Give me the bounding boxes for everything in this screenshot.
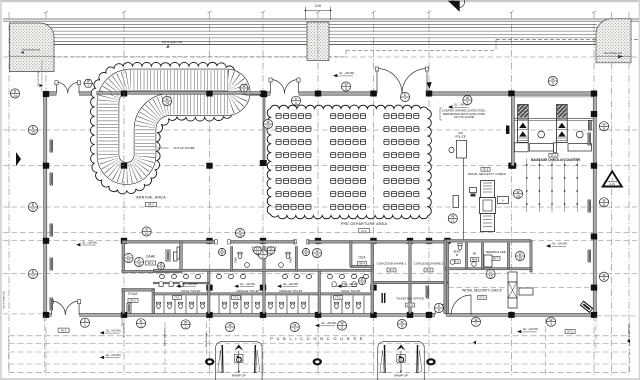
top exterior wall bbox=[43, 92, 57, 95]
svg-text:7: 7 bbox=[87, 84, 89, 88]
EL markers bbox=[333, 71, 355, 77]
svg-text:5: 5 bbox=[345, 87, 347, 91]
grid overlay in cloud bbox=[318, 109, 374, 216]
svg-text:ARRIVAL AREA: ARRIVAL AREA bbox=[136, 196, 166, 200]
PWD fixtures bbox=[238, 252, 242, 258]
svg-text:RAMP UP: RAMP UP bbox=[394, 373, 408, 377]
svg-text:9: 9 bbox=[438, 309, 440, 313]
right exterior wall bbox=[593, 94, 596, 317]
svg-text:line of lower roof: line of lower roof bbox=[628, 324, 631, 342]
svg-text:IF-1: IF-1 bbox=[551, 153, 557, 157]
svg-text:7: 7 bbox=[475, 322, 477, 326]
svg-text:16: 16 bbox=[145, 232, 149, 236]
svg-text:EL. +00 MN.: EL. +00 MN. bbox=[241, 282, 256, 286]
svg-text:EL. +00 MN.: EL. +00 MN. bbox=[344, 282, 359, 286]
concession top wall bbox=[263, 241, 295, 244]
door swing arrow bbox=[427, 82, 432, 89]
svg-text:INITIAL SECURITY CHECK: INITIAL SECURITY CHECK bbox=[468, 172, 507, 176]
CAAF cabinet bbox=[166, 250, 170, 261]
svg-text:13: 13 bbox=[266, 125, 270, 129]
svg-text:14: 14 bbox=[13, 94, 17, 98]
single door bottom-right bbox=[435, 304, 446, 315]
hatched canopy top-right bbox=[596, 19, 631, 63]
out of scope leader bbox=[157, 147, 169, 149]
bubbles small in toilets bbox=[157, 262, 164, 270]
svg-text:MALE TOILET: MALE TOILET bbox=[341, 289, 361, 293]
svg-text:17: 17 bbox=[31, 208, 35, 212]
conveyor belts bbox=[518, 105, 529, 143]
carousel belt bbox=[108, 80, 239, 174]
svg-text:9: 9 bbox=[552, 82, 554, 86]
grid overlay in carousel bbox=[123, 67, 125, 194]
svg-text:MALE TOILET: MALE TOILET bbox=[181, 289, 201, 293]
north arrow bbox=[452, 0, 464, 8]
svg-text:PCAS: PCAS bbox=[128, 292, 138, 296]
svg-text:line of canopy: line of canopy bbox=[121, 310, 124, 326]
svg-text:FEMALE TOILET: FEMALE TOILET bbox=[236, 289, 259, 293]
queue lines bbox=[527, 159, 577, 213]
svg-text:11: 11 bbox=[602, 127, 606, 131]
svg-text:11: 11 bbox=[602, 277, 606, 281]
svg-text:2: 2 bbox=[185, 325, 187, 329]
svg-text:EL. +00 MN.: EL. +00 MN. bbox=[340, 71, 355, 75]
concession walls bbox=[409, 242, 411, 314]
concourse canopy dashed lines bbox=[9, 316, 630, 372]
svg-text:15: 15 bbox=[489, 275, 493, 279]
svg-text:18: 18 bbox=[238, 234, 242, 238]
section marker triangle bbox=[601, 170, 624, 188]
svg-text:17: 17 bbox=[451, 219, 455, 223]
dimension 2.00 bbox=[306, 7, 331, 21]
svg-text:line of canopy: line of canopy bbox=[205, 332, 208, 348]
svg-text:IR-7: IR-7 bbox=[493, 257, 499, 261]
svg-text:P U B L I C C O N C O U R S: P U B L I C C O N C O U R S E bbox=[270, 336, 364, 341]
svg-text:6: 6 bbox=[401, 325, 403, 329]
svg-text:POLICE: POLICE bbox=[455, 135, 465, 139]
svg-text:EL. +00 MN.: EL. +00 MN. bbox=[106, 353, 121, 357]
lavatories bbox=[160, 274, 369, 278]
svg-text:INITIAL SECURITY CHECK: INITIAL SECURITY CHECK bbox=[462, 289, 503, 293]
double door top-right bbox=[375, 67, 428, 94]
svg-text:line of canopy: line of canopy bbox=[37, 70, 40, 86]
svg-text:2.00: 2.00 bbox=[315, 4, 322, 8]
svg-text:IT-2: IT-2 bbox=[234, 296, 239, 300]
svg-text:line of upper roof: line of upper roof bbox=[164, 328, 167, 346]
BAGGAGE CHECK-IN COUNTER label bbox=[549, 153, 558, 157]
svg-text:1: 1 bbox=[611, 178, 613, 182]
svg-text:11: 11 bbox=[256, 251, 260, 255]
svg-text:EL. +00 MN.: EL. +00 MN. bbox=[183, 282, 198, 286]
PWD rooms center top bbox=[231, 247, 233, 271]
svg-text:5: 5 bbox=[361, 282, 363, 286]
svg-text:IF-3: IF-3 bbox=[483, 167, 489, 171]
svg-text:5: 5 bbox=[305, 253, 307, 257]
grid bubbles bbox=[10, 89, 19, 98]
upper roof edge thick gray lines bbox=[3, 19, 639, 21]
INITIAL SECURITY CHECK text bbox=[481, 167, 490, 171]
grid line top ticks bbox=[44, 11, 596, 13]
svg-text:11: 11 bbox=[602, 203, 606, 207]
security area walls bbox=[444, 240, 531, 243]
door arc security room bbox=[451, 295, 471, 315]
svg-text:IR-6: IR-6 bbox=[472, 258, 478, 262]
svg-text:IR-1: IR-1 bbox=[148, 261, 154, 265]
CAAF room walls bbox=[122, 242, 125, 272]
svg-text:TERMINAL FEE: TERMINAL FEE bbox=[485, 250, 505, 254]
terminal fee booth bbox=[484, 255, 492, 267]
wall line through carousel bbox=[96, 92, 266, 95]
xray tables right room bbox=[508, 272, 517, 282]
bollards bbox=[205, 358, 214, 365]
svg-text:5: 5 bbox=[221, 253, 223, 257]
svg-text:OUT OF SCOPE: OUT OF SCOPE bbox=[173, 146, 194, 150]
svg-text:12: 12 bbox=[269, 251, 273, 255]
svg-text:CONCESSIONAIRE 2: CONCESSIONAIRE 2 bbox=[414, 262, 444, 266]
svg-text:IF-3: IF-3 bbox=[479, 296, 485, 300]
svg-text:TICKETING OFFICE: TICKETING OFFICE bbox=[396, 296, 424, 300]
diagonal stair bottom right bbox=[580, 301, 594, 313]
svg-text:5: 5 bbox=[160, 267, 162, 271]
svg-text:CONCESSIONAIRE 1: CONCESSIONAIRE 1 bbox=[377, 262, 407, 266]
svg-text:EL. +00 MN.: EL. +00 MN. bbox=[523, 327, 538, 331]
svg-text:3: 3 bbox=[341, 326, 343, 330]
svg-text:8: 8 bbox=[243, 88, 245, 92]
svg-text:line of upper roof: line of upper roof bbox=[162, 40, 182, 44]
double door bottom-left bbox=[50, 300, 81, 315]
svg-text:IF-3: IF-3 bbox=[568, 330, 574, 334]
svg-text:30: 30 bbox=[518, 257, 522, 261]
svg-text:FEMALE TOILET: FEMALE TOILET bbox=[279, 289, 302, 293]
double door top-left bbox=[55, 81, 81, 94]
svg-text:(OUT OF SCOPE): (OUT OF SCOPE) bbox=[454, 116, 475, 119]
svg-text:line of lower roof: line of lower roof bbox=[3, 291, 6, 309]
svg-text:PRE DEPARTURE AREA: PRE DEPARTURE AREA bbox=[341, 222, 388, 226]
scales circles bbox=[538, 131, 545, 138]
svg-text:EL. +00 MN.: EL. +00 MN. bbox=[83, 240, 98, 244]
svg-text:PWD: PWD bbox=[234, 257, 238, 263]
bottom exterior wall bbox=[44, 313, 52, 316]
svg-text:19: 19 bbox=[315, 254, 319, 258]
svg-text:IR-2: IR-2 bbox=[130, 299, 136, 303]
PCAS room walls bbox=[122, 289, 125, 314]
hatched canopy top-left bbox=[10, 23, 55, 72]
svg-text:IF-1: IF-1 bbox=[389, 268, 395, 272]
BOH fixtures bbox=[450, 260, 455, 265]
hex bubbles bbox=[84, 80, 93, 88]
svg-text:A-31: A-31 bbox=[610, 182, 616, 186]
OCA room bbox=[351, 265, 374, 267]
ramp left bbox=[216, 342, 263, 380]
svg-text:7: 7 bbox=[404, 98, 406, 102]
toilet block outer walls bbox=[153, 293, 372, 295]
left exterior wall bbox=[44, 94, 47, 314]
xray machine stack bbox=[470, 188, 477, 193]
svg-text:IR-1: IR-1 bbox=[148, 203, 154, 207]
double door top-mid bbox=[269, 78, 300, 94]
counter line across bbox=[514, 118, 593, 120]
svg-text:17: 17 bbox=[261, 255, 265, 259]
svg-text:EL. +00 MN.: EL. +00 MN. bbox=[284, 282, 299, 286]
check-in hall walls bbox=[511, 96, 514, 166]
svg-text:IR-4: IR-4 bbox=[359, 262, 365, 266]
structural columns bbox=[43, 91, 597, 318]
svg-text:IR-3: IR-3 bbox=[61, 328, 67, 332]
svg-text:16: 16 bbox=[137, 263, 141, 267]
svg-text:IT-3: IT-3 bbox=[336, 296, 341, 300]
sill line top right bbox=[513, 96, 593, 98]
partition wall x=264 bbox=[263, 96, 265, 161]
svg-text:4: 4 bbox=[550, 322, 552, 326]
toilet entry door posts bbox=[215, 240, 218, 244]
svg-text:line of lower roof: line of lower roof bbox=[22, 49, 40, 52]
svg-text:17: 17 bbox=[31, 275, 35, 279]
svg-text:EL. +00 MN.: EL. +00 MN. bbox=[553, 242, 568, 246]
svg-text:16: 16 bbox=[516, 194, 520, 198]
toilet stalls bbox=[164, 296, 364, 314]
svg-text:BAGGAGE CHECK-IN COUNTER: BAGGAGE CHECK-IN COUNTER bbox=[531, 158, 581, 162]
pre departure cloud bbox=[267, 105, 431, 219]
svg-text:1: 1 bbox=[229, 328, 231, 332]
svg-text:EL. +00 MN.: EL. +00 MN. bbox=[322, 321, 337, 325]
seats bbox=[276, 114, 419, 210]
roof slat lines bbox=[41, 24, 597, 44]
svg-text:IT-1: IT-1 bbox=[175, 296, 180, 300]
svg-text:15: 15 bbox=[31, 131, 35, 135]
check-in desks bbox=[514, 143, 528, 152]
svg-text:CAAF: CAAF bbox=[146, 255, 156, 259]
svg-text:OCA: OCA bbox=[359, 256, 367, 260]
svg-text:EL. +00 MN.: EL. +00 MN. bbox=[106, 328, 121, 332]
windows right area wall bbox=[588, 133, 591, 145]
svg-text:RAMP UP: RAMP UP bbox=[232, 373, 246, 377]
svg-text:RE: RE bbox=[473, 252, 477, 256]
svg-text:9: 9 bbox=[466, 101, 468, 105]
toilet labels bbox=[176, 282, 198, 288]
svg-text:IF-1: IF-1 bbox=[361, 229, 367, 233]
columns in carousel bbox=[121, 91, 127, 97]
line of upper roof dashed bbox=[10, 39, 638, 57]
svg-text:2: 2 bbox=[294, 328, 296, 332]
svg-text:1: 1 bbox=[84, 323, 86, 327]
svg-text:IR-2: IR-2 bbox=[407, 303, 413, 307]
svg-text:15: 15 bbox=[127, 259, 131, 263]
svg-text:8: 8 bbox=[295, 101, 297, 105]
hatched canopy pier top-center bbox=[307, 22, 329, 61]
door leaf symbol bbox=[382, 293, 383, 303]
svg-text:14: 14 bbox=[165, 102, 169, 106]
svg-text:line of lower roof: line of lower roof bbox=[604, 52, 622, 55]
svg-text:1: 1 bbox=[140, 324, 142, 328]
baggage carousel cloud bbox=[90, 62, 245, 193]
windows left wall bbox=[50, 140, 53, 152]
svg-text:IF-2: IF-2 bbox=[426, 268, 432, 272]
urinals bbox=[159, 281, 356, 286]
ramp right bbox=[378, 342, 425, 380]
queue barrier line bbox=[463, 158, 465, 240]
PCAS cabinet bbox=[127, 303, 131, 313]
